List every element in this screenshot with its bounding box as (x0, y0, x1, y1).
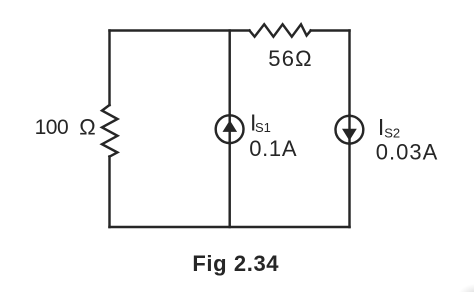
svg-text:56Ω: 56Ω (268, 46, 313, 71)
current source IS1 arrow (points up) (223, 121, 236, 131)
wire: middle branch upper segment (top wire down to current source IS1) (228, 31, 230, 116)
svg-text:0.1A: 0.1A (249, 136, 297, 161)
wire: middle branch lower segment (IS1 down to bottom wire) (228, 144, 230, 227)
current source IS2 arrow (points down) (343, 129, 356, 139)
svg-text:S1: S1 (255, 120, 271, 135)
wire: middle branch through IS1 circle (228, 115, 230, 144)
wire: bottom side (bottom-left corner to bottom-right corner) (110, 226, 350, 228)
wire: right side lower segment (IS2 down to bottom-right corner) (348, 144, 350, 227)
current source IS2 (circle) (336, 116, 364, 144)
wire: top side (left segment from top-left corner to 56-ohm resistor) (110, 29, 250, 31)
svg-text:S2: S2 (384, 126, 400, 141)
wire: right side through IS2 circle (348, 115, 350, 144)
current source IS1 (circle) (216, 115, 244, 143)
resistor 56 ohm (zigzag on top wire) (250, 24, 311, 36)
wire: right side upper segment (top-right corner down to current source IS2) (348, 31, 350, 116)
faint page shadow smudge bottom-right corner (448, 276, 474, 292)
svg-text:Fig 2.34: Fig 2.34 (192, 251, 279, 276)
wire: left side lower segment (100-ohm resistor down to bottom-left corner) (108, 157, 110, 228)
wire: left side upper segment (top-left corner down to 100-ohm resistor) (108, 31, 110, 106)
svg-text:0.03A: 0.03A (376, 139, 439, 164)
svg-text:Ω: Ω (79, 115, 95, 140)
wire: top side (right segment from 56-ohm resistor to top-right corner) (311, 29, 350, 31)
resistor 100 ohm (zigzag on left branch) (102, 105, 118, 157)
svg-text:100: 100 (35, 116, 69, 139)
